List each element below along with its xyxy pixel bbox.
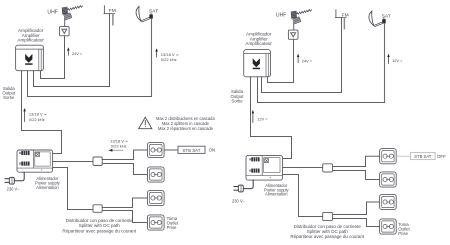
splitter 1 (left)	[93, 157, 102, 166]
arrow 13/18V output (left)	[23, 108, 26, 122]
wire splitter 2 to outlet 3 (right)	[333, 202, 380, 215]
svg-text:Alimentation: Alimentation	[265, 192, 288, 197]
wire amp output to power supply (right)	[251, 77, 292, 159]
arrow 13/18V SAT (left)	[155, 48, 158, 57]
outlet 2 (left)	[148, 167, 165, 182]
amplifier box (left)	[16, 45, 44, 70]
antenna SAT dish (left)	[136, 6, 153, 22]
power supply box (left)	[17, 150, 53, 172]
mast amplifier box (left)	[60, 27, 70, 36]
antenna UHF (left)	[62, 6, 83, 27]
wire UHF downlead (left)	[64, 36, 66, 79]
wire amp output to power supply (left)	[22, 71, 62, 154]
wire splitter 2 to outlet 4 (right)	[333, 219, 380, 227]
wire power supply to splitter 1 (right)	[283, 167, 323, 169]
svg-text:Prise: Prise	[167, 225, 177, 230]
svg-text:13/18 V ≃: 13/18 V ≃	[29, 111, 47, 116]
wire outlet 1 to STB (right, gray)	[396, 155, 410, 157]
antenna SAT dish (right)	[369, 11, 386, 27]
wire power supply to splitter 2 (left)	[53, 168, 93, 210]
outlet 2 (right)	[380, 172, 397, 187]
wire power supply to splitter 1 (left)	[53, 161, 93, 163]
wire splitter 2 to outlet 3 (left)	[102, 198, 147, 208]
svg-text:UHF: UHF	[47, 9, 57, 15]
wire amp to SAT (right)	[258, 77, 385, 103]
svg-text:230 V~: 230 V~	[7, 186, 21, 191]
wire UHF downlead (right)	[293, 39, 295, 82]
splitter symbol inside power supply (left)	[36, 152, 40, 156]
wire splitter 1 to outlet 1 (right)	[333, 156, 380, 166]
power supply box (right)	[246, 156, 283, 181]
svg-text:SAT: SAT	[149, 8, 158, 14]
svg-text:Amplificateur: Amplificateur	[17, 38, 44, 43]
wire splitter 1 to outlet 1 (left)	[102, 150, 147, 160]
mast amplifier box (right)	[288, 30, 298, 39]
splitter 2 (left)	[93, 205, 102, 213]
F-connector block 2 on power supply (right)	[249, 169, 260, 173]
svg-text:Alimentation: Alimentation	[36, 185, 59, 190]
splitter symbol inside power supply (right)	[265, 159, 269, 163]
outlet 1 (left)	[148, 142, 165, 157]
wire splitter 2 to outlet 4 (left)	[102, 211, 147, 223]
svg-text:Amplificateur: Amplificateur	[245, 41, 272, 46]
outlet 4 (right)	[380, 219, 397, 234]
svg-text:ON: ON	[209, 148, 216, 153]
svg-text:Sortie: Sortie	[231, 99, 243, 104]
warning triangle (left)	[139, 117, 152, 129]
svg-text:12V =: 12V =	[257, 117, 268, 122]
wire amp to SAT (left)	[28, 71, 152, 97]
wire splitter 1 to outlet 2 (left)	[102, 164, 147, 175]
svg-text:STB SAT: STB SAT	[183, 148, 201, 153]
wire amp to UHF (right)	[268, 77, 294, 83]
arrow 24V (left)	[67, 47, 70, 55]
wire SAT downlead (left)	[151, 19, 153, 97]
svg-text:STB SAT: STB SAT	[414, 154, 432, 159]
wire amp to UHF (left)	[41, 71, 65, 79]
svg-text:Max 2 répartiteurs en cascade: Max 2 répartiteurs en cascade	[158, 126, 214, 131]
wire FM downlead (right)	[341, 18, 343, 93]
arrow 24V (right)	[297, 54, 300, 63]
svg-text:Répartiteur avec passage du co: Répartiteur avec passage du courant	[62, 228, 137, 233]
svg-text:24V =: 24V =	[72, 51, 83, 56]
F-connector block 1 on power supply (left)	[19, 151, 30, 155]
outlet 4 (left)	[148, 215, 165, 230]
svg-text:230 V~: 230 V~	[232, 198, 246, 203]
svg-text:Prise: Prise	[398, 231, 408, 236]
STB SAT box (right, gray)	[411, 152, 436, 159]
svg-text:OFF: OFF	[437, 154, 446, 159]
wire splitter 1 to outlet 2 (right)	[333, 171, 380, 180]
svg-text:SAT: SAT	[382, 13, 391, 19]
splitter 1 (right)	[323, 164, 333, 172]
F-connector block 2 on power supply (left)	[19, 162, 30, 166]
arrow 13/18V horizontal (left)	[108, 149, 122, 152]
svg-text:12V =: 12V =	[392, 58, 403, 63]
wire outlet 1 to STB (left)	[164, 149, 178, 151]
wire FM downlead (left)	[109, 14, 111, 87]
wire amp to FM (right)	[262, 77, 342, 93]
outlet 3 (left)	[148, 190, 165, 205]
power cord and plug (right)	[234, 180, 253, 192]
logo on amplifier (left)	[25, 54, 32, 65]
antenna FM (right)	[336, 10, 347, 29]
antenna FM (left)	[104, 6, 115, 25]
STB SAT box (left)	[178, 146, 205, 153]
svg-text:0/22 kHz: 0/22 kHz	[111, 143, 127, 148]
svg-text:UHF: UHF	[276, 13, 286, 19]
logo on amplifier (right)	[253, 58, 260, 69]
svg-text:0/22 kHz: 0/22 kHz	[161, 57, 177, 62]
svg-text:24V =: 24V =	[302, 58, 313, 63]
F-connector block 1 on power supply (right)	[249, 157, 260, 161]
splitter 2 (right)	[323, 212, 333, 220]
amplifier box (right)	[244, 50, 271, 77]
svg-text:FM: FM	[109, 8, 116, 14]
outlet 3 (right)	[380, 194, 397, 209]
svg-text:0/22 kHz: 0/22 kHz	[29, 117, 45, 122]
wire SAT downlead (right)	[384, 24, 386, 103]
arrow 12V SAT (right)	[387, 54, 390, 64]
svg-text:Répartiteur avec passage du co: Répartiteur avec passage du courant	[290, 234, 365, 239]
outlet 1 (right)	[380, 149, 397, 164]
power cord and plug (left)	[5, 172, 24, 184]
wire power supply to splitter 2 (right)	[283, 175, 323, 217]
arrow 12V output (right)	[252, 110, 255, 123]
svg-text:Sortie: Sortie	[3, 95, 15, 100]
wire amp to FM (left)	[34, 71, 110, 87]
antenna UHF (right)	[291, 10, 312, 31]
